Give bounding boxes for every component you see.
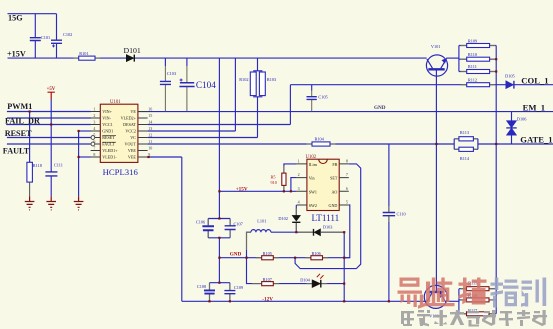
resistor R101 xyxy=(79,56,95,60)
svg-text:R5: R5 xyxy=(271,174,276,179)
wire pin13 VCC2 row xyxy=(148,130,236,132)
wire R101 to D101 xyxy=(95,57,126,59)
overline RESET pin xyxy=(102,135,116,137)
node dot C106 pair bottom xyxy=(218,237,220,239)
wire C106 C107 pair loop xyxy=(208,219,230,238)
op-amp U102 LT1111 body xyxy=(307,159,339,210)
wire LT1111 pin2 jog to +15V row xyxy=(291,178,297,192)
svg-text:14: 14 xyxy=(148,119,152,124)
wire VLED1- pin8 stub wire xyxy=(79,156,91,158)
pin names U102 xyxy=(309,162,338,208)
inductor L101 xyxy=(251,230,271,233)
resistor R115 xyxy=(467,287,490,291)
svg-text:13: 13 xyxy=(148,126,152,131)
wire DESAT horizontal to R112 xyxy=(290,84,466,86)
wire LT1111 pin8 FB feedback path xyxy=(295,164,361,269)
capacitor C105 xyxy=(307,97,317,100)
resistor R106 xyxy=(311,256,323,260)
svg-text:PWM1: PWM1 xyxy=(7,102,32,111)
svg-text:LT1111: LT1111 xyxy=(312,213,340,223)
resistor R104 xyxy=(312,142,330,146)
node dot VLED1- column xyxy=(78,156,80,158)
wire C101 column on 15G net xyxy=(34,14,36,58)
wire cap pair gray stubs C106 C107 C108 C109 xyxy=(208,219,230,301)
svg-text:R114: R114 xyxy=(460,156,470,161)
svg-text:3: 3 xyxy=(298,186,300,191)
watermark gray slogan line xyxy=(401,310,547,327)
node dot C106 pair top xyxy=(218,217,220,219)
wire pin4 pin8 ground column xyxy=(78,131,80,196)
wire +5V C111 column xyxy=(50,100,52,197)
capacitor C106 polarized xyxy=(202,226,214,230)
node dot C108 pair top xyxy=(218,282,220,284)
svg-text:10: 10 xyxy=(148,145,152,150)
wire DESAT riser xyxy=(289,85,291,125)
resistor R110 xyxy=(467,57,490,61)
wire C103 column xyxy=(164,58,166,66)
wire V101 base to V102 bar column xyxy=(435,71,437,292)
svg-text:VLED1+: VLED1+ xyxy=(102,148,118,153)
svg-text:C106: C106 xyxy=(196,220,206,225)
svg-text:R109: R109 xyxy=(468,38,477,43)
svg-text:8: 8 xyxy=(346,159,348,164)
wire pin11 VOUT to R104 xyxy=(148,143,312,145)
pin numbers U101 xyxy=(93,106,152,157)
svg-text:12: 12 xyxy=(148,132,152,137)
capacitor C111 xyxy=(45,172,57,176)
svg-text:D102: D102 xyxy=(278,216,288,221)
svg-text:C102: C102 xyxy=(63,32,72,37)
svg-text:5: 5 xyxy=(93,132,95,137)
wire LT1111 pin4 down to D102 xyxy=(295,205,297,215)
resistor R102 xyxy=(250,72,256,96)
wire L101 left lead column xyxy=(247,232,251,258)
wire R115-R117 left bus xyxy=(459,289,467,314)
watermark big char yi xyxy=(398,278,427,309)
wire LT1111 pin1 to R5 xyxy=(284,164,297,173)
resistor R105 xyxy=(262,256,274,260)
wire D102 cathode to switch row xyxy=(295,223,297,232)
svg-text:C111: C111 xyxy=(54,162,63,167)
wire gate row R113 pair to GATE_1 port xyxy=(478,143,553,145)
wire VEE left column to -12V rail xyxy=(181,157,183,301)
wire C102 column on 15G net xyxy=(56,14,58,58)
wire R115-R117 gray leads xyxy=(461,289,496,314)
svg-text:SET: SET xyxy=(330,176,338,181)
node dot FB tap R105 R106 xyxy=(294,257,296,259)
svg-text:C101: C101 xyxy=(41,35,50,40)
svg-text:VC: VC xyxy=(130,135,136,140)
svg-text:GND: GND xyxy=(230,252,242,258)
pin stubs U101 left xyxy=(91,112,101,158)
wire pin14 DESAT row xyxy=(148,124,291,126)
svg-text:R118: R118 xyxy=(33,163,42,168)
svg-text:Vin: Vin xyxy=(309,176,315,181)
svg-text:4: 4 xyxy=(298,200,300,205)
wire D103 anode column to R106 D104 -12V xyxy=(343,232,345,301)
pin names U101 xyxy=(102,109,136,160)
wire C110 gray leads xyxy=(388,206,390,222)
pin stubs U101 right xyxy=(138,112,148,158)
wire +15V row to LT1111 pin3 xyxy=(219,190,296,192)
power net labels red xyxy=(47,87,386,302)
wire +15V rail D101 to V101 collector xyxy=(135,57,427,59)
transistor V101 xyxy=(426,55,447,76)
wire C103 gray leads xyxy=(164,66,166,111)
wire R5 bottom lead xyxy=(283,185,285,191)
wire C108 C109 pair top bus xyxy=(210,283,230,302)
svg-text:3: 3 xyxy=(93,119,95,124)
wire pin2 row xyxy=(7,117,91,119)
wire D104 gray leads xyxy=(306,283,327,285)
wire FAIL_DR +5V to pin3 xyxy=(6,124,91,126)
wire D103 gray leads xyxy=(299,231,343,233)
svg-text:VEE: VEE xyxy=(128,155,136,160)
svg-text:VEE: VEE xyxy=(128,148,136,153)
wire R109-R112 gray leads xyxy=(461,46,496,85)
node dot column 344 on rail xyxy=(343,300,345,302)
watermark big char di xyxy=(426,278,455,307)
resistor R103 xyxy=(259,72,265,96)
wire R105 R106 R107 gray leads xyxy=(252,258,328,284)
svg-text:COL_1: COL_1 xyxy=(521,76,548,86)
svg-text:C104: C104 xyxy=(196,80,216,90)
wire RESET to pin5 xyxy=(7,137,91,139)
svg-text:D105: D105 xyxy=(505,74,515,79)
svg-text:R101: R101 xyxy=(79,51,88,56)
wire C104 gray leads xyxy=(186,66,188,111)
wire +15V rail left of R101 xyxy=(8,57,79,59)
wire GND1 pin4 stub wire xyxy=(79,130,91,132)
capacitor C104 polarized xyxy=(179,79,194,87)
node dot pin2 jog xyxy=(290,190,292,192)
wire pin9 VEE jog xyxy=(149,156,182,158)
resistor R113 xyxy=(459,137,474,141)
ground at R118 xyxy=(25,196,35,210)
wire D104 cathode lead xyxy=(321,283,344,285)
wire pin12 VC row xyxy=(148,137,258,139)
wire L101 to D102 D103 row xyxy=(271,231,344,233)
diode D102 xyxy=(292,215,300,222)
capacitor C102 polarized xyxy=(51,40,62,47)
svg-text:C103: C103 xyxy=(167,71,176,76)
wire R112 right to D105 xyxy=(490,84,506,86)
wire net 15G horizontal xyxy=(8,13,57,15)
wire R102 R103 pair column to VC row xyxy=(257,58,259,137)
wire D105 cathode to COL_1 port xyxy=(514,84,553,86)
svg-text:RESET: RESET xyxy=(5,129,32,138)
node dot C109 on rail xyxy=(229,300,231,302)
svg-text:+5V: +5V xyxy=(47,87,56,92)
svg-text:FB: FB xyxy=(332,162,337,167)
reference labels small blue xyxy=(33,32,528,319)
node dot C108 on rail xyxy=(208,300,210,302)
node dot R111 right xyxy=(495,70,497,72)
svg-text:8: 8 xyxy=(93,152,95,157)
wire C105 gray leads xyxy=(311,91,313,112)
wire EM GND long row pin16 to EM_1 port xyxy=(138,111,553,113)
resistor R116 xyxy=(467,298,490,302)
svg-text:DESAT: DESAT xyxy=(123,122,136,127)
node dot D104 cathode column xyxy=(343,283,345,285)
wire PWM1 to pin1 xyxy=(7,111,91,113)
svg-text:15G: 15G xyxy=(8,14,23,23)
svg-text:HCPL316: HCPL316 xyxy=(103,167,139,177)
diode D101 xyxy=(126,55,134,62)
resistor R112 xyxy=(467,83,490,87)
diode D104 LED xyxy=(312,274,323,288)
svg-text:V101: V101 xyxy=(431,44,441,49)
svg-text:L101: L101 xyxy=(257,218,266,223)
node dot V101 base VOUT row xyxy=(435,143,437,145)
svg-text:R112: R112 xyxy=(468,77,477,82)
wire +15V down-column to LT1111 row xyxy=(218,58,220,218)
pin 6 inversion bubble U101 xyxy=(91,142,95,146)
svg-text:C107: C107 xyxy=(234,221,244,226)
svg-text:-12V: -12V xyxy=(262,297,273,303)
svg-text:1: 1 xyxy=(298,159,300,164)
resistor R107 xyxy=(262,282,274,286)
svg-text:D106: D106 xyxy=(517,116,527,121)
svg-text:VE: VE xyxy=(130,109,136,114)
svg-text:R106: R106 xyxy=(312,251,322,256)
svg-text:VIN-: VIN- xyxy=(102,116,111,121)
svg-text:11: 11 xyxy=(148,139,152,144)
node dot PWM1 R118 xyxy=(29,110,31,112)
svg-text:R107: R107 xyxy=(263,277,273,282)
capacitor C103 xyxy=(160,81,171,84)
node dot GND row column xyxy=(218,257,220,259)
wire R102 R103 top and bottom buses xyxy=(253,71,262,97)
capacitor C109 xyxy=(224,291,235,294)
resistor R117 xyxy=(467,312,490,316)
wire gate long column xyxy=(495,46,497,314)
svg-text:SW2: SW2 xyxy=(309,203,317,208)
svg-text:2: 2 xyxy=(298,172,300,177)
svg-text:GND1: GND1 xyxy=(102,129,113,134)
wire GND row xyxy=(219,257,349,259)
node dot D102 cathode row xyxy=(295,231,297,233)
wire V102 emitter to lower bus xyxy=(445,300,459,302)
svg-text:C105: C105 xyxy=(318,95,327,100)
pin numbers U102 xyxy=(298,159,348,205)
node dot R5 bottom xyxy=(283,190,285,192)
svg-text:VIN+: VIN+ xyxy=(102,109,112,114)
pin stubs U102 left xyxy=(296,164,307,205)
wire R104 to R113 R114 pair xyxy=(330,143,454,145)
wire VLED2/VCC2 column xyxy=(234,58,236,131)
wire R113 R114 loop xyxy=(454,139,478,150)
wire V101 emitter to resistor bus xyxy=(446,57,459,59)
wire R109-R112 right leads to gate column xyxy=(490,46,497,72)
wire R5 gray leads xyxy=(283,166,285,191)
svg-text:R103: R103 xyxy=(267,77,276,82)
resistor R5 xyxy=(282,173,286,185)
wire R104 gray leads xyxy=(307,143,336,145)
svg-text:D101: D101 xyxy=(124,46,141,55)
svg-text:GND: GND xyxy=(329,203,338,208)
svg-text:C108: C108 xyxy=(197,284,206,289)
svg-text:6: 6 xyxy=(346,186,348,191)
svg-text:2: 2 xyxy=(93,113,95,118)
svg-text:FAIL_DR: FAIL_DR xyxy=(5,116,40,125)
wire R115-R117 right leads xyxy=(489,289,496,314)
svg-text:R113: R113 xyxy=(460,130,469,135)
wire D106 column EM to GATE xyxy=(511,112,513,144)
node dot gate column VOUT row xyxy=(495,143,497,145)
node dot C110 on rail xyxy=(388,300,390,302)
node dot GND1 column xyxy=(78,130,80,132)
resistor R109 xyxy=(467,44,490,48)
node dot +15V row column xyxy=(218,190,220,192)
resistor R114 xyxy=(459,147,474,151)
watermark big char xun xyxy=(521,278,546,307)
diode D105 xyxy=(506,81,514,89)
wire R109-R111 left bus xyxy=(458,46,460,72)
wire R107 branch column xyxy=(247,258,262,284)
wire R118 pulldown column xyxy=(29,112,31,163)
svg-text:R110: R110 xyxy=(468,52,477,57)
resistor R111 xyxy=(467,70,490,74)
wire GND column between cap pairs xyxy=(218,238,220,283)
watermark big char tuo xyxy=(459,278,487,305)
svg-text:U102: U102 xyxy=(306,155,317,160)
svg-text:+15V: +15V xyxy=(7,50,26,59)
capacitor C101 xyxy=(30,38,41,41)
ground at GND1 VLED1- column xyxy=(74,196,84,210)
svg-text:7: 7 xyxy=(93,145,95,150)
node dot pin9 VEE xyxy=(147,156,149,158)
wire -12V rail xyxy=(182,300,427,302)
svg-text:EM_1: EM_1 xyxy=(523,102,545,112)
overline FAULT pin xyxy=(102,141,116,143)
capacitor C108 polarized xyxy=(204,290,215,293)
capacitor C110 xyxy=(383,213,395,216)
wire C110 column xyxy=(388,144,390,301)
svg-text:R111: R111 xyxy=(468,64,477,69)
svg-text:R104: R104 xyxy=(315,136,325,141)
svg-text:SW1: SW1 xyxy=(309,189,317,194)
svg-text:C109: C109 xyxy=(234,285,243,290)
wire L101 gray leads xyxy=(247,232,251,250)
svg-text:+15V: +15V xyxy=(236,186,248,192)
component gray leads xyxy=(74,46,496,314)
node dot R106 right column xyxy=(343,257,345,259)
svg-text:R102: R102 xyxy=(239,77,248,82)
svg-text:VCC2: VCC2 xyxy=(125,129,135,134)
wire FAULT to pin6 xyxy=(7,143,91,145)
op-amp U101 HCPL316 body xyxy=(100,104,138,162)
wire LT1111 pin5 to GND row xyxy=(344,205,350,258)
svg-text:VCC1: VCC1 xyxy=(102,122,112,127)
ground at C111 xyxy=(46,196,56,210)
svg-text:16: 16 xyxy=(148,106,152,111)
svg-text:GND: GND xyxy=(374,105,386,111)
svg-text:6: 6 xyxy=(93,139,95,144)
svg-text:ILim: ILim xyxy=(309,162,318,167)
svg-text:D104: D104 xyxy=(300,277,310,282)
wire bus stubs to R109 R110 R111 xyxy=(459,46,467,72)
svg-text:7: 7 xyxy=(346,172,348,177)
diode D106 bidirectional xyxy=(506,121,516,136)
wire D102 gray leads xyxy=(295,208,297,232)
transistor V102 xyxy=(424,285,447,308)
svg-text:FAULT: FAULT xyxy=(3,146,30,155)
svg-text:5: 5 xyxy=(346,200,348,205)
wire R113 R114 gray leads xyxy=(455,139,477,150)
wire C104 column xyxy=(186,58,188,66)
svg-text:15: 15 xyxy=(148,113,152,118)
node dot D103 anode column xyxy=(343,231,345,233)
wire R107 to D104 xyxy=(273,283,312,285)
wire R101 gray leads xyxy=(74,57,101,59)
WATERMARK xyxy=(398,278,548,327)
svg-text:910: 910 xyxy=(271,180,277,185)
power +5V symbol xyxy=(48,92,55,99)
node dot R110 right xyxy=(495,58,497,60)
svg-text:1: 1 xyxy=(93,106,95,111)
svg-text:4: 4 xyxy=(93,126,95,131)
svg-text:GATE_1: GATE_1 xyxy=(520,135,552,145)
wire R118 lower lead xyxy=(29,182,31,196)
svg-text:VOUT: VOUT xyxy=(125,142,137,147)
svg-text:D103: D103 xyxy=(323,225,333,230)
pin 5 inversion bubble U101 xyxy=(91,136,95,140)
svg-text:R105: R105 xyxy=(263,251,272,256)
diode D103 xyxy=(314,229,321,236)
svg-text:VLED1-: VLED1- xyxy=(102,155,117,160)
svg-text:AO: AO xyxy=(331,189,337,194)
svg-text:C110: C110 xyxy=(397,212,406,217)
node dot +5V VCC1 xyxy=(50,123,52,125)
node dot L101 R107 branch xyxy=(245,257,247,259)
svg-text:U101: U101 xyxy=(110,100,121,105)
capacitor C107 xyxy=(225,226,236,230)
wire C105 column xyxy=(311,85,313,91)
watermark big char pei xyxy=(491,278,519,308)
pin stubs U102 right xyxy=(339,164,349,205)
resistor R118 xyxy=(27,162,33,182)
svg-text:VLED2+: VLED2+ xyxy=(121,116,137,121)
